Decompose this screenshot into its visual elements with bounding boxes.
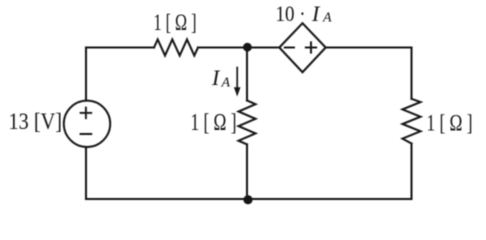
wire top segment (dependent source to top-right corner) bbox=[326, 46, 412, 48]
current label IA bbox=[211, 65, 231, 91]
minus sign inside U1 bbox=[285, 47, 294, 49]
svg-text:1 [ Ω ]: 1 [ Ω ] bbox=[427, 111, 473, 136]
svg-text:I: I bbox=[211, 65, 221, 90]
svg-text:I: I bbox=[311, 1, 321, 26]
wire left branch upper (top wire down to source V1) bbox=[85, 48, 87, 101]
junction dot node A (top middle) bbox=[243, 43, 252, 52]
wire left branch lower (source V1 to bottom wire) bbox=[85, 147, 87, 199]
wire right branch lower (R3 to bottom wire) bbox=[410, 144, 412, 200]
wire top-middle segment (R1 to node A) bbox=[198, 46, 280, 48]
svg-text:A: A bbox=[221, 76, 231, 91]
plus sign inside U1 bbox=[306, 42, 316, 52]
wire bottom horizontal bbox=[86, 198, 412, 200]
wire top-left horizontal segment bbox=[86, 46, 154, 48]
junction dot node B (bottom middle) bbox=[243, 195, 252, 204]
resistor R1 1Ω (top horizontal zigzag) bbox=[154, 40, 198, 56]
current arrow IA head bbox=[234, 87, 241, 96]
current arrow IA shaft bbox=[236, 68, 238, 90]
svg-text:1 [ Ω ]: 1 [ Ω ] bbox=[154, 10, 197, 35]
wire middle branch upper (node A down to R2) bbox=[246, 48, 248, 101]
wire middle branch lower (R2 to node B) bbox=[246, 144, 248, 199]
wire right branch upper (top wire down to R3) bbox=[410, 48, 412, 99]
dependent source U1 diamond bbox=[279, 23, 325, 72]
voltage source V1 circle bbox=[64, 101, 110, 147]
svg-text:A: A bbox=[322, 11, 332, 26]
minus sign inside V1 bbox=[81, 133, 92, 135]
svg-text:13 [V]: 13 [V] bbox=[9, 109, 63, 134]
resistor R2 1Ω (middle vertical zigzag) bbox=[239, 101, 256, 145]
resistor R3 1Ω (right vertical zigzag) bbox=[403, 99, 421, 144]
label 10·IA for dependent source U1 bbox=[276, 1, 333, 26]
svg-text:1 [ Ω ]: 1 [ Ω ] bbox=[191, 110, 237, 136]
plus sign inside V1 bbox=[81, 108, 92, 119]
svg-text:10 ·: 10 · bbox=[276, 1, 306, 26]
